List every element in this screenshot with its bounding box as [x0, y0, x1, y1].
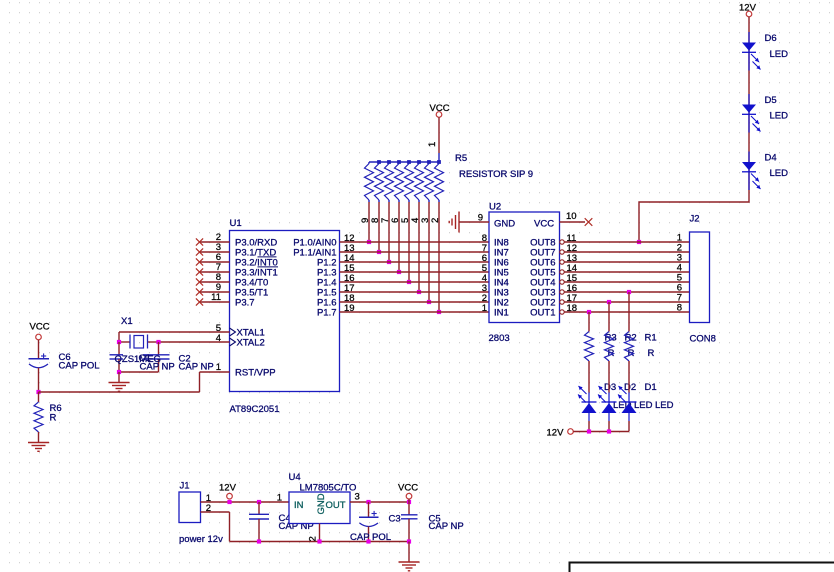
svg-text:12V: 12V: [547, 428, 565, 439]
svg-text:LED: LED: [770, 168, 789, 179]
svg-text:11: 11: [211, 292, 221, 303]
svg-text:R: R: [50, 413, 57, 424]
svg-text:R: R: [648, 348, 655, 359]
svg-text:CON8: CON8: [690, 334, 716, 345]
svg-text:GND: GND: [494, 219, 515, 230]
svg-text:D3: D3: [604, 382, 616, 393]
svg-text:D2: D2: [624, 382, 636, 393]
svg-text:C3: C3: [389, 514, 401, 525]
svg-text:VCC: VCC: [30, 322, 50, 333]
svg-text:2: 2: [307, 536, 318, 541]
svg-text:GND: GND: [316, 493, 327, 514]
svg-text:J2: J2: [690, 214, 700, 225]
svg-text:X1: X1: [121, 316, 133, 327]
svg-text:D1: D1: [645, 382, 657, 393]
svg-text:D6: D6: [765, 33, 777, 44]
svg-text:1: 1: [427, 142, 438, 147]
svg-text:CAP NP: CAP NP: [429, 521, 464, 532]
svg-text:10: 10: [566, 211, 577, 222]
svg-text:CAP NP: CAP NP: [179, 362, 214, 373]
svg-text:OUT: OUT: [326, 500, 346, 511]
svg-text:U1: U1: [230, 218, 242, 229]
svg-text:LED: LED: [634, 400, 653, 411]
svg-text:VCC: VCC: [534, 219, 554, 230]
svg-text:IN1: IN1: [494, 308, 509, 319]
svg-text:8: 8: [677, 303, 682, 314]
svg-text:VCC: VCC: [398, 483, 418, 494]
svg-text:IN: IN: [294, 500, 304, 511]
svg-text:3: 3: [355, 492, 360, 503]
svg-text:power 12v: power 12v: [179, 534, 223, 545]
svg-text:J1: J1: [180, 481, 190, 492]
svg-text:2: 2: [430, 218, 441, 223]
svg-text:R5: R5: [455, 153, 467, 164]
svg-text:18: 18: [567, 303, 578, 314]
svg-text:D4: D4: [765, 153, 777, 164]
svg-text:U2: U2: [489, 202, 501, 213]
svg-text:LM7805C/TO: LM7805C/TO: [300, 483, 357, 494]
svg-text:CAP POL: CAP POL: [59, 361, 100, 372]
svg-text:1: 1: [277, 493, 282, 504]
svg-text:U4: U4: [289, 472, 301, 483]
svg-text:RST/VPP: RST/VPP: [235, 368, 276, 379]
svg-text:1: 1: [482, 303, 487, 314]
svg-text:12V: 12V: [219, 483, 237, 494]
svg-text:CAP POL: CAP POL: [350, 532, 391, 543]
svg-text:LED: LED: [770, 111, 789, 122]
svg-text:P3.7: P3.7: [235, 298, 255, 309]
svg-text:AT89C2051: AT89C2051: [230, 404, 280, 415]
svg-text:XTAL2: XTAL2: [237, 338, 265, 349]
svg-text:LED: LED: [655, 400, 674, 411]
svg-text:2803: 2803: [489, 333, 510, 344]
svg-text:19: 19: [344, 303, 355, 314]
svg-text:CAP NP: CAP NP: [140, 362, 175, 373]
svg-text:OUT1: OUT1: [530, 308, 555, 319]
svg-text:2: 2: [206, 503, 211, 514]
svg-text:LED: LED: [770, 49, 789, 60]
svg-text:9: 9: [478, 213, 483, 224]
svg-text:P1.7: P1.7: [317, 308, 337, 319]
svg-text:RESISTOR SIP 9: RESISTOR SIP 9: [459, 169, 533, 180]
svg-text:1: 1: [216, 362, 221, 373]
svg-text:D5: D5: [765, 95, 777, 106]
svg-text:R1: R1: [645, 333, 657, 344]
